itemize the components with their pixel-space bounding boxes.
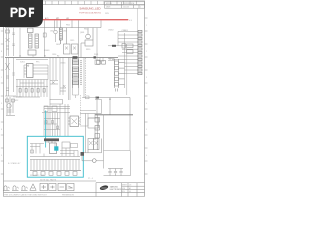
inrush blob xyxy=(81,152,85,156)
output filter box upper xyxy=(97,98,130,151)
legend box 1 xyxy=(40,183,48,190)
wire to ground loop xyxy=(82,153,104,161)
svg-text:R1: R1 xyxy=(44,55,46,57)
bridge diodes D861 D862 xyxy=(88,139,102,153)
footer separation line xyxy=(4,192,145,194)
transformer bottom wires xyxy=(73,88,79,98)
PFC mosfet Q801 xyxy=(81,28,93,58)
ruler ticks right xyxy=(145,18,148,174)
svg-text:R860 R861 C868: R860 R861 C868 xyxy=(30,175,44,177)
connector CN801 pin row xyxy=(138,30,142,74)
capacitor CX801 branch xyxy=(12,28,15,56)
opto coupler PC801 cluster xyxy=(6,97,16,116)
selected component (cyan fill) xyxy=(54,146,58,150)
svg-text:ZD81: ZD81 xyxy=(94,54,98,56)
junction blob right xyxy=(94,56,96,58)
revision table top right xyxy=(105,2,145,8)
left border xyxy=(3,5,5,197)
top ruler outer line xyxy=(42,0,145,2)
legend strip top line xyxy=(4,180,97,182)
svg-text:PERMISSION: PERMISSION xyxy=(62,195,75,197)
current sense blob xyxy=(112,45,116,47)
svg-text:IC801: IC801 xyxy=(20,61,25,63)
wire: main primary bus xyxy=(5,57,118,59)
secondary comb verticals xyxy=(44,104,68,136)
right margin zone marks xyxy=(146,25,147,157)
svg-text:Q801: Q801 xyxy=(80,32,84,34)
svg-text:L802: L802 xyxy=(63,30,67,32)
svg-text:1/4: 1/4 xyxy=(129,184,131,186)
svg-text:LF1: LF1 xyxy=(66,18,69,20)
svg-text:C2: C2 xyxy=(32,55,34,57)
svg-text:MODEL: MODEL xyxy=(106,3,112,5)
bridge rectifier BD801 xyxy=(64,28,79,54)
note text above legend xyxy=(40,178,93,181)
line filter LF801 xyxy=(28,28,39,55)
top ruler line xyxy=(4,4,146,6)
wires into choke ladder xyxy=(97,58,115,65)
legend box 4 xyxy=(67,183,74,190)
standby comb verticals xyxy=(31,141,79,170)
thermistor TH801 xyxy=(43,28,46,58)
relay RY801 xyxy=(54,28,58,42)
secondary control cluster top box xyxy=(42,100,102,114)
wire: vertical drops from live net xyxy=(45,20,102,57)
svg-text:5: 5 xyxy=(146,129,147,131)
svg-text:NOTE: ALL PARTS: NOTE: ALL PARTS xyxy=(40,178,57,181)
revision table cell marks xyxy=(106,2,141,8)
title block cell text xyxy=(122,184,132,193)
left margin zone marks xyxy=(1,24,3,157)
svg-text:D852: D852 xyxy=(14,100,18,102)
svg-text:WITHOUT: WITHOUT xyxy=(38,195,48,197)
dashed feedback vertical xyxy=(80,95,82,125)
main transformer T801 xyxy=(73,58,82,89)
svg-text:R2: R2 xyxy=(57,55,59,57)
svg-text:1: 1 xyxy=(140,7,141,9)
labels on red net xyxy=(45,17,69,20)
opto/feedback IC U851 xyxy=(68,116,81,127)
svg-text:D803: D803 xyxy=(56,44,60,46)
svg-text:PSPF261501A: PSPF261501A xyxy=(123,2,135,5)
component labels sprinkles (primary) xyxy=(20,13,114,64)
standby mid detail wires xyxy=(30,144,78,157)
svg-text:C815: C815 xyxy=(70,40,74,42)
choke ladder L851 column xyxy=(115,59,125,92)
sheet background xyxy=(0,0,149,198)
filter bead FB801 xyxy=(122,44,133,54)
svg-text:R812: R812 xyxy=(84,28,88,30)
labels above main bus xyxy=(19,55,59,57)
connector CN801 body edge xyxy=(137,30,139,75)
svg-text:R820: R820 xyxy=(86,49,90,51)
highlighted AC live net (red) xyxy=(43,19,129,21)
svg-text:00: 00 xyxy=(129,191,131,193)
border frame with ruler xyxy=(4,1,146,197)
logo wordmark hint xyxy=(101,187,106,189)
PDF badge letter D xyxy=(19,8,27,18)
PFC controller IC801 xyxy=(27,64,34,78)
svg-text:BD801: BD801 xyxy=(44,50,50,52)
bottom border xyxy=(4,196,145,198)
standby ground rail xyxy=(30,169,81,171)
wire: vertical x20 xyxy=(19,28,21,58)
PDF badge letter F xyxy=(29,8,34,18)
svg-text:CN802: CN802 xyxy=(108,30,114,32)
legend symbol: polarized cap 2 xyxy=(12,186,19,191)
legend symbol: polarized cap 3 xyxy=(21,186,28,191)
primary side verticals xyxy=(50,58,86,101)
jumper circle JP851 xyxy=(92,159,96,163)
electrolytic column C851-C853 xyxy=(95,115,100,150)
svg-text:CS801: CS801 xyxy=(60,62,66,64)
svg-text:NT1: NT1 xyxy=(56,18,59,20)
legend symbol: earth triangle xyxy=(30,184,36,191)
svg-text:ELECTRONICS: ELECTRONICS xyxy=(110,189,121,191)
snubber network xyxy=(95,28,100,65)
resistor comb under IC801 xyxy=(16,80,48,98)
svg-text:PSPF261501A REV00: PSPF261501A REV00 xyxy=(79,11,102,14)
resistor row R811-R815 xyxy=(16,89,45,98)
svg-text:R851 C855: R851 C855 xyxy=(13,97,22,99)
PDF badge letter P xyxy=(11,8,18,18)
svg-text:2: 2 xyxy=(146,51,147,53)
svg-text:6: 6 xyxy=(146,155,147,157)
ruler ticks left xyxy=(1,18,4,174)
svg-text:2011.03: 2011.03 xyxy=(123,7,129,9)
inductor L801 xyxy=(59,28,62,44)
aux box in standby block xyxy=(30,142,80,160)
svg-text:3: 3 xyxy=(146,77,147,79)
labels near opto xyxy=(13,97,22,102)
blob near box corner xyxy=(96,97,100,99)
title block frame xyxy=(96,183,145,197)
wire: loop bottom xyxy=(104,151,131,176)
wire: long vertical right xyxy=(126,48,128,95)
ground rail heavy line xyxy=(95,114,133,116)
legend box 2 xyxy=(49,183,56,190)
Samsung logo ellipse xyxy=(99,185,108,191)
legend symbol: polarized cap xyxy=(3,186,10,191)
right border xyxy=(144,1,146,197)
sync rect block xyxy=(80,114,102,153)
output caps C861-C863 xyxy=(108,169,123,176)
output wires to connector xyxy=(108,32,138,89)
svg-text:C816: C816 xyxy=(52,54,56,56)
varistor ZNR801 left column xyxy=(5,58,16,97)
standby IC IC851 xyxy=(50,143,57,154)
highlight box (cyan) around standby block xyxy=(27,136,83,177)
svg-text:THIS DOCUMENT CAN NOT BE USED: THIS DOCUMENT CAN NOT BE USED xyxy=(4,194,38,197)
footer fine print xyxy=(4,194,75,197)
svg-text:4: 4 xyxy=(146,103,147,105)
svg-text:AC1: AC1 xyxy=(45,17,49,20)
highlight net (cyan vertical) xyxy=(45,111,47,148)
wire: AC neutral bus xyxy=(5,27,101,29)
svg-text:F802: F802 xyxy=(66,25,70,27)
wire: loop inner horizontal xyxy=(104,150,131,152)
wire: secondary bus under IC xyxy=(16,58,48,60)
wire from revision table xyxy=(137,8,139,30)
IC801 pin wires xyxy=(24,65,48,80)
snubber caps cluster xyxy=(50,81,66,92)
svg-text:SHEET: SHEET xyxy=(122,184,127,186)
logo side text xyxy=(110,186,121,191)
junction blob on main bus xyxy=(73,56,78,59)
svg-text:1: 1 xyxy=(146,25,147,27)
ruler ticks top xyxy=(46,1,137,5)
svg-text:SAMSUNG_LED: SAMSUNG_LED xyxy=(79,6,100,10)
svg-text:C1: C1 xyxy=(19,55,21,57)
wires near output box xyxy=(80,96,97,126)
svg-text:SIZE: SIZE xyxy=(122,188,126,190)
svg-text:B: STAND-BY: B: STAND-BY xyxy=(8,162,21,165)
wire: big loop left rail xyxy=(103,115,105,169)
svg-text:27 - 4: 27 - 4 xyxy=(88,178,93,180)
legend box 3 xyxy=(58,183,66,190)
standby block label bar xyxy=(44,138,59,141)
svg-text:C812: C812 xyxy=(50,30,54,32)
fuse F801 branch xyxy=(6,28,10,56)
standby bottom components xyxy=(33,172,77,176)
PDF badge plate xyxy=(0,0,43,27)
bar to IC connection wires xyxy=(46,141,55,146)
